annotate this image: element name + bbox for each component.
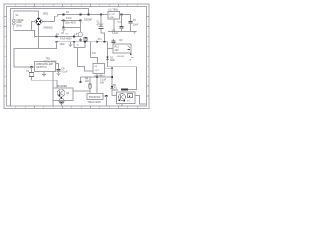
wire long left return [11, 9, 89, 107]
svg-text:VI VO: VI VO [109, 14, 115, 16]
svg-text:63V: 63V [100, 81, 105, 84]
wire LED branch [107, 49, 109, 67]
wire resistor branch [89, 77, 91, 94]
svg-text:BT: BT [127, 100, 130, 102]
wire driver right pin [135, 96, 147, 105]
svg-text:LED: LED [110, 59, 115, 62]
relay coil RL1 [84, 37, 87, 41]
capacitor C4 [119, 15, 123, 32]
wire triac right pin [103, 95, 107, 97]
svg-text:OMI-SH: OMI-SH [117, 56, 125, 58]
wire triac to bottom rail [106, 96, 108, 106]
ground [57, 73, 61, 75]
terminal stub [80, 77, 82, 83]
svg-text:230V: 230V [16, 21, 22, 24]
bridge rectifier BR1 [34, 17, 42, 25]
wire opto feed drop [90, 42, 92, 58]
wire disc to frame rail [61, 104, 63, 106]
wire coil loop [74, 37, 85, 48]
wire staircase to opto [78, 48, 94, 72]
wire lower rail [61, 20, 81, 22]
wire bridge right to riser [43, 21, 55, 23]
svg-text:0.1uF: 0.1uF [112, 32, 119, 35]
relay contact marks [128, 46, 131, 50]
neon lamp [78, 32, 82, 36]
transistor Q1 [57, 89, 65, 97]
node junction [111, 76, 113, 78]
wire mains feed right [108, 67, 137, 90]
ground rail top right [108, 31, 135, 33]
svg-text:GND: GND [109, 17, 114, 19]
node junction [60, 97, 62, 99]
node junction [104, 41, 106, 43]
svg-text:LP: LP [75, 33, 78, 36]
LED D2 [106, 57, 109, 60]
wire opto bottom pin [96, 74, 98, 94]
wire bottom from V1 to AC rail [14, 25, 35, 37]
wire loop to U2 [14, 49, 39, 68]
svg-text:V1: V1 [16, 14, 20, 17]
node dot [73, 36, 75, 38]
svg-text:47uF: 47uF [66, 17, 72, 20]
U2 bottom pin gnd [43, 72, 45, 75]
svg-text:47uF 400V: 47uF 400V [60, 38, 72, 41]
node junction [129, 96, 130, 97]
neon lamp wire [80, 21, 82, 33]
node junction [111, 68, 113, 70]
svg-text:1k: 1k [77, 45, 80, 47]
svg-text:12F675 IO: 12F675 IO [36, 67, 47, 69]
svg-text:47u: 47u [98, 38, 103, 41]
node junction [84, 41, 86, 43]
opto-isolator U3 [93, 64, 105, 74]
wire to driver box [112, 95, 117, 97]
marks right of relay [130, 54, 132, 56]
branch rail [81, 76, 113, 78]
node dot [80, 14, 82, 16]
flyback diode under lamp [79, 38, 82, 42]
node junction [106, 95, 108, 97]
triac box L [87, 94, 103, 100]
wire crystal to buzzer box [32, 77, 58, 89]
wire opto right pin [105, 67, 113, 69]
node dot [63, 20, 65, 22]
svg-text:BR1: BR1 [43, 12, 48, 15]
wire rail to relay pin [108, 42, 114, 49]
node dot [56, 41, 58, 43]
U2 right pin cap [56, 64, 61, 74]
node dot [80, 20, 82, 22]
node junction [118, 100, 120, 102]
wire riser staircase [55, 15, 58, 22]
wire U1 gnd down [113, 19, 115, 32]
node dot [63, 14, 65, 16]
svg-text:2k2: 2k2 [85, 80, 90, 83]
wire neutral link [64, 27, 81, 29]
sounder disc [59, 98, 64, 103]
AC input terminals V1 [13, 19, 16, 25]
node dot [56, 36, 58, 38]
wire bridge left leg [32, 22, 35, 31]
border frame outer [4, 4, 149, 109]
svg-text:BUZZER: BUZZER [58, 85, 68, 88]
svg-text:U3: U3 [94, 66, 98, 68]
relay box RL1 [113, 44, 131, 53]
regulator U1 box [108, 12, 120, 20]
svg-text:0.1uF: 0.1uF [61, 71, 68, 74]
svg-text:50Hz: 50Hz [16, 25, 22, 28]
svg-text:U1 7805: U1 7805 [109, 9, 119, 12]
svg-text:D1: D1 [66, 11, 70, 14]
wire neutral drop [63, 21, 65, 28]
capacitor C5 output [128, 15, 132, 32]
ground below rail [70, 42, 72, 45]
node junction [63, 27, 65, 29]
svg-text:617: 617 [95, 70, 99, 72]
svg-text:Q1: Q1 [66, 92, 70, 95]
capacitor C1 [99, 15, 105, 42]
U2 box [35, 62, 56, 72]
svg-text:100n 400V: 100n 400V [65, 22, 77, 25]
node junction [31, 66, 33, 68]
wire lamp branch [111, 67, 113, 96]
diode D4 [111, 86, 114, 88]
node dot [121, 14, 123, 16]
svg-text:R2: R2 [120, 39, 124, 42]
buzzer box BUZ1 [53, 88, 73, 101]
svg-text:A: A [130, 58, 132, 61]
svg-text:TRIAC 600V: TRIAC 600V [88, 101, 102, 104]
diode D3 on rail [97, 40, 99, 43]
ground symbol [133, 32, 137, 34]
svg-text:C4: C4 [118, 21, 122, 24]
node junction [96, 76, 98, 78]
svg-text:47u: 47u [92, 52, 97, 55]
svg-text:12V: 12V [115, 49, 120, 52]
svg-text:C5: C5 [133, 19, 137, 22]
wire U1 out [120, 14, 131, 16]
node dot [100, 14, 102, 16]
wire top from V1 to bridge [14, 11, 39, 19]
svg-text:2W005G: 2W005G [43, 26, 53, 29]
node dot [88, 14, 90, 16]
node junction [124, 100, 126, 102]
svg-text:2200uF: 2200uF [84, 18, 93, 21]
frame tick marks [4, 4, 149, 109]
lower DC rail [57, 41, 108, 43]
svg-text:0V: 0V [66, 34, 69, 36]
wire opto top feed [91, 58, 98, 64]
svg-text:1C: 1C [61, 32, 64, 35]
bridge bottom loop [39, 26, 57, 49]
svg-text:F1: F1 [56, 33, 59, 36]
AC rail upper [35, 36, 81, 38]
node dot [73, 41, 75, 43]
wire DC+ rail [58, 14, 109, 16]
wire driver bottom pin [121, 104, 123, 107]
svg-text:100n: 100n [60, 43, 66, 46]
transistor Q2 [118, 93, 125, 100]
ground [62, 30, 66, 32]
svg-text:AT89C2051-24P: AT89C2051-24P [36, 63, 53, 66]
capacitor C3 [112, 39, 116, 44]
svg-text:BT136 600: BT136 600 [89, 97, 101, 99]
wire Q1 to disc [60, 97, 63, 99]
resistor R4 [89, 84, 92, 88]
wire opto right pin [105, 67, 113, 69]
lamp LP1 filament bar [121, 89, 128, 91]
wire M to L [73, 90, 90, 92]
crystal X1 [29, 73, 34, 77]
svg-text:10uF: 10uF [133, 24, 139, 27]
U2 bottom pin to buzzer [52, 72, 54, 106]
wire lamp to mains drop [128, 89, 137, 91]
svg-text:470uF: 470uF [97, 23, 104, 26]
component block BT [128, 94, 133, 98]
wire to crystal [31, 67, 33, 73]
driver box Q2 [117, 92, 136, 104]
